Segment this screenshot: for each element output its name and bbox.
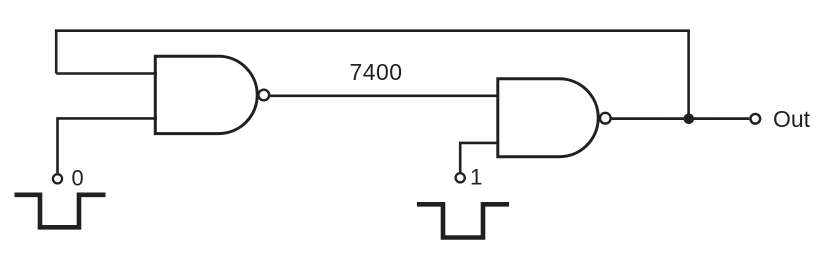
wire: gate U1 output to gate U2 top input — [269, 94, 499, 97]
wire: feedback vertical from output junction up to top rail — [687, 31, 690, 119]
terminal: input 0 open circle — [53, 174, 62, 183]
waveform: negative pulse at input 0 — [15, 195, 106, 228]
wire: feedback drop on left side — [55, 29, 58, 73]
wire: gate U2 output to Out terminal — [611, 117, 750, 120]
nand gate U2 (right 7400 gate) — [498, 79, 611, 157]
svg-text:1: 1 — [470, 165, 482, 190]
wire: into gate U1 top input — [56, 72, 157, 75]
nand gate U1 (left 7400 gate) — [155, 56, 269, 133]
terminal: input 1 open circle — [456, 173, 465, 182]
svg-text:7400: 7400 — [350, 59, 403, 85]
svg-text:0: 0 — [72, 166, 84, 191]
waveform: negative pulse at input 1 — [417, 204, 509, 237]
wire: top feedback rail — [55, 29, 690, 32]
wire: input 0 terminal to gate U1 bottom input — [58, 118, 158, 173]
wire: input 1 terminal to gate U2 bottom input — [460, 143, 499, 172]
junction: feedback tap on output node — [684, 114, 695, 125]
svg-text:Out: Out — [773, 106, 811, 132]
terminal: Out open circle — [750, 114, 760, 124]
